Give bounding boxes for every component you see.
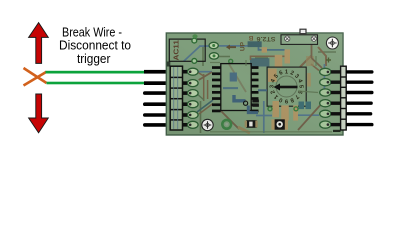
teal pads bottom right (299, 102, 312, 110)
trace network brown (199, 44, 324, 130)
right solder pads (ovals) (320, 68, 331, 128)
trace texture right side (300, 47, 326, 71)
pad ring bottom (AC11 box) (192, 59, 197, 64)
wire left 5 (143, 113, 174, 117)
small via rings below dial (268, 107, 298, 111)
left solder pads (ovals) (188, 68, 199, 128)
left lead stubs (183, 70, 189, 127)
silkscreen arrow left (226, 45, 236, 50)
rotary switch dial digits (270, 70, 304, 104)
via green donut (222, 120, 231, 129)
jumper pad JP1 (209, 42, 218, 48)
trace network dark olive (201, 46, 337, 133)
silkscreen text UP (240, 41, 247, 51)
traces over terminal cells (174, 67, 178, 129)
dark mark bottom right edge (333, 130, 341, 132)
wire left 4 (143, 102, 174, 106)
plus mark silkscreen (326, 58, 331, 63)
arrow up (red) (29, 23, 49, 64)
jumper pad JP2 (209, 53, 218, 59)
pad dot (229, 59, 233, 63)
pad on top edge (192, 34, 197, 38)
wire right 2 (346, 81, 374, 84)
right terminal block (341, 66, 347, 130)
wire green 2 (47, 82, 146, 85)
svg-text:trigger: trigger (77, 51, 111, 66)
tan pads bottom center (273, 101, 299, 121)
tan strip right of dial (307, 73, 311, 87)
rotary switch arrow (274, 84, 298, 91)
silkscreen glyph B (248, 34, 253, 41)
label: Break Wire - Disconnect to trigger (59, 25, 131, 67)
break X (orange) (24, 68, 47, 86)
wire left 3 (143, 91, 174, 95)
silkscreen text ST2.6 (rotated 180) (256, 35, 276, 42)
wire right 4 (346, 102, 373, 105)
pushbutton S1 actuator (300, 29, 306, 33)
trace texture left of IC (167, 62, 213, 115)
wire green 1 (46, 71, 146, 74)
rotary switch SW1 square (267, 67, 306, 106)
silkscreen box AC11 (169, 39, 205, 61)
trace network blue-gray (174, 46, 324, 133)
wire left 1 (144, 70, 174, 74)
IC U1 body outline (221, 64, 259, 111)
IC U1 right pins (251, 66, 258, 112)
left terminal block (170, 66, 182, 130)
PCB board (166, 33, 343, 135)
wire left 2 (144, 81, 174, 85)
inductor L1 (271, 119, 288, 129)
wire right 1 (346, 70, 374, 73)
IC U1 left pins (212, 66, 221, 112)
diode D1 (245, 120, 258, 128)
arrow down (red) (29, 94, 49, 133)
copper pour teal patches (248, 41, 286, 66)
wire left 6 (143, 123, 174, 127)
pushbutton pad left (285, 36, 290, 41)
teal stub IC to dial (258, 89, 267, 91)
screw hole bottom left (202, 119, 213, 130)
wire right 3 (346, 91, 374, 94)
board shading overlay (166, 33, 343, 135)
wire right 6 (346, 123, 374, 126)
right lead stubs (331, 70, 341, 126)
pushbutton pad right (311, 36, 316, 41)
screw hole top right (326, 37, 338, 49)
pushbutton S1 body box (281, 35, 318, 45)
SMD pads tan top (262, 47, 290, 67)
wire right 5 (346, 112, 373, 115)
texture traces extra (210, 56, 332, 132)
trace bracket blue (238, 106, 258, 134)
pad ring top (AC11 box) (192, 38, 197, 43)
